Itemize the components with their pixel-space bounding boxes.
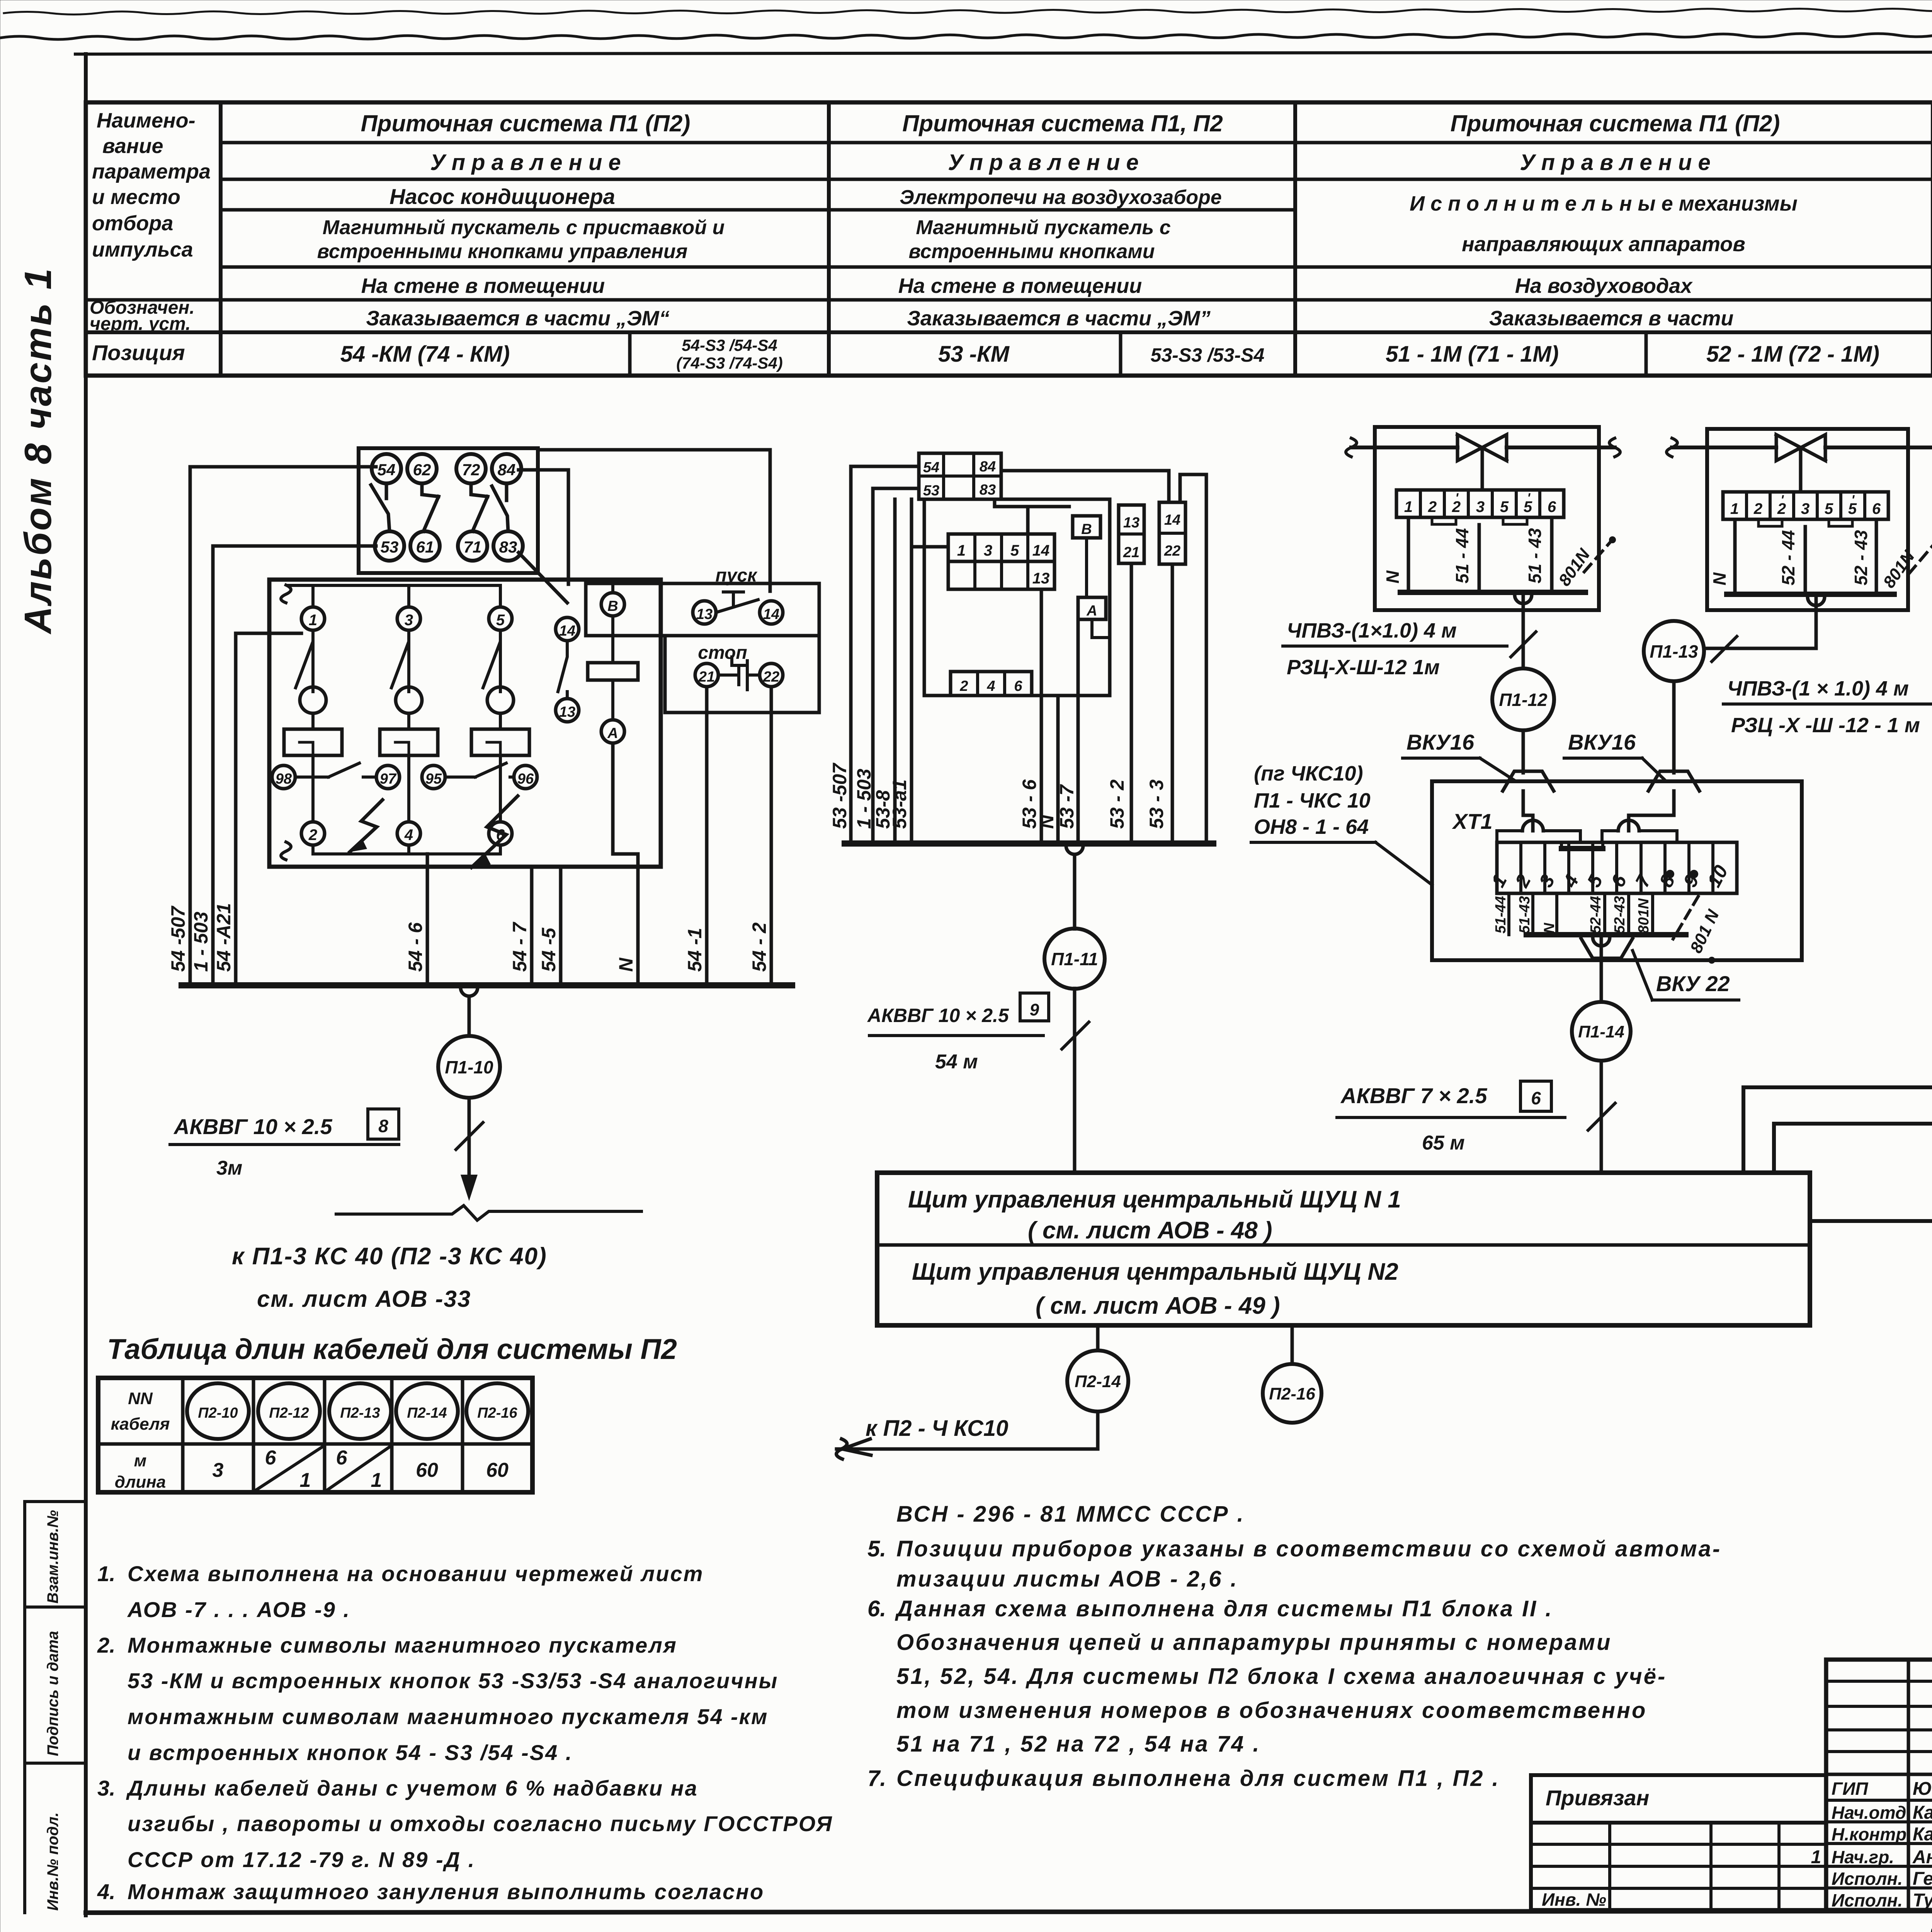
svg-text:13: 13 <box>1032 570 1050 587</box>
svg-text:П2-14: П2-14 <box>407 1405 447 1421</box>
privjazan grid <box>1531 1823 1826 1910</box>
svg-text:Заказывается в части „ЭМ”: Заказывается в части „ЭМ” <box>907 307 1211 330</box>
svg-text:96: 96 <box>517 771 534 787</box>
position row split x2900 <box>1119 332 1122 376</box>
svg-text:к П2 - Ч КС10: к П2 - Ч КС10 <box>866 1416 1009 1441</box>
XT1 wires cells to bus <box>1509 893 1653 935</box>
svg-text:1: 1 <box>1730 500 1739 517</box>
svg-text:направляющих аппаратов: направляющих аппаратов <box>1462 233 1745 256</box>
XT1 outer box <box>1432 781 1802 960</box>
svg-text:1: 1 <box>371 1469 382 1492</box>
svg-text:черт. уст.: черт. уст. <box>90 314 191 334</box>
svg-text:NN: NN <box>128 1389 153 1408</box>
contactor 54-KM terminal box <box>359 448 538 573</box>
svg-text:2.: 2. <box>97 1633 116 1657</box>
svg-text:ХТ1: ХТ1 <box>1452 809 1493 833</box>
svg-text:72: 72 <box>462 461 480 479</box>
starter pole 1-2 <box>301 607 325 630</box>
svg-text:10: 10 <box>1703 862 1732 891</box>
svg-text:54 -А21: 54 -А21 <box>213 903 235 972</box>
svg-text:3: 3 <box>405 612 413 629</box>
junction bump on mid bus <box>1066 846 1083 854</box>
svg-text:П1-12: П1-12 <box>1499 690 1548 710</box>
wire П1-12 down into XT1 <box>1523 730 1533 831</box>
cable circle П2-10 <box>187 1383 249 1439</box>
starter pole 3-4 <box>397 607 420 630</box>
svg-text:53-S3 /53-S4: 53-S3 /53-S4 <box>1151 344 1265 366</box>
aux contact link 98-97 <box>295 763 376 777</box>
svg-text:Подпись и дата: Подпись и дата <box>44 1631 61 1756</box>
wire АКВВГ 4x2.5 to П1-20 <box>1810 1221 1932 1230</box>
terminal 53 <box>375 531 404 561</box>
svg-text:3: 3 <box>1801 500 1810 517</box>
relay coil B-A <box>601 593 624 616</box>
svg-text:(пг ЧКС10): (пг ЧКС10) <box>1254 762 1363 785</box>
svg-text:Нач.отд.: Нач.отд. <box>1832 1803 1911 1823</box>
svg-text:Таблица длин кабелей для сис: Таблица длин кабелей для системы П2 <box>107 1333 677 1365</box>
svg-text:1: 1 <box>300 1469 311 1492</box>
paper top straight edge line <box>75 51 1932 54</box>
valve2 801N dashed link <box>1909 543 1932 574</box>
svg-text:54 - 6: 54 - 6 <box>405 922 426 972</box>
aux contact 96 <box>514 765 537 789</box>
svg-text:95: 95 <box>425 771 442 787</box>
svg-text:Электропечи на воздухозаборе: Электропечи на воздухозаборе <box>900 186 1222 209</box>
valve1 strip jumper hats <box>1432 517 1527 524</box>
svg-text:53 -507: 53 -507 <box>829 762 850 829</box>
wire 54-A21 <box>236 633 301 985</box>
svg-text:встроенными кнопками: встроенными кнопками <box>908 240 1155 263</box>
wire 54-1 <box>705 687 709 985</box>
title block upper revision rows <box>1826 1680 1932 1683</box>
svg-text:На стене в помещении: На стене в помещении <box>898 274 1142 298</box>
svg-text:14: 14 <box>559 623 575 639</box>
mid block bottom bus <box>845 840 1213 847</box>
svg-text:см. лист АОВ -33: см. лист АОВ -33 <box>257 1286 471 1312</box>
svg-text:52-43: 52-43 <box>1612 896 1628 934</box>
svg-text:Магнитный пускатель с прист: Магнитный пускатель с приставкой и <box>323 216 725 239</box>
wire 1-503 <box>213 546 376 985</box>
header table row line y776 <box>86 298 1932 302</box>
svg-text:1: 1 <box>957 542 966 559</box>
instrument П1-13 <box>1644 621 1704 681</box>
wire 53-a1 <box>912 499 948 844</box>
mid terminal strip 1 3 5 14 <box>948 534 1054 561</box>
box A mid <box>1078 597 1106 619</box>
svg-text:У п р а в л е н и е: У п р а в л е н и е <box>948 150 1139 175</box>
cable circle П2-14 <box>396 1383 458 1439</box>
slash on П1-14 cable <box>1588 1103 1615 1130</box>
mid block enclosing box <box>919 499 1110 696</box>
svg-text:Н.контр.: Н.контр. <box>1832 1824 1912 1844</box>
paper top torn edge wavy line 1 <box>4 7 1932 15</box>
wire 54-5 <box>559 867 563 985</box>
header table column line x3352 <box>1293 102 1297 376</box>
svg-text:Щит управления центральный: Щит управления центральный ЩУЦ N2 <box>912 1259 1398 1285</box>
svg-text:ВКУ 22: ВКУ 22 <box>1656 971 1730 996</box>
svg-text:П2-16: П2-16 <box>1269 1384 1315 1403</box>
svg-text:1: 1 <box>1811 1847 1821 1867</box>
svg-text:84: 84 <box>980 459 996 475</box>
svg-text:83: 83 <box>499 538 517 556</box>
XT1 dashed 801N link <box>1673 896 1698 939</box>
instrument П2-16 <box>1291 1325 1294 1364</box>
aux arrow under 95-96 <box>471 796 518 867</box>
wire top box bottom to 14 cell <box>995 499 1069 534</box>
valve1 801N dashed link <box>1584 541 1611 572</box>
left stamp column boxes <box>25 1502 86 1913</box>
svg-text:1 - 503: 1 - 503 <box>190 912 212 972</box>
svg-text:Тужилкина: Тужилкина <box>1913 1890 1932 1911</box>
svg-text:пуск: пуск <box>715 565 758 586</box>
wire к П2-4КС10 <box>837 1412 1098 1449</box>
svg-text:ОН8 - 1 - 64: ОН8 - 1 - 64 <box>1254 815 1369 838</box>
svg-text:длина: длина <box>115 1473 166 1492</box>
svg-text:N: N <box>1709 572 1730 585</box>
valve 1 terminal strip <box>1396 490 1564 517</box>
svg-text:54: 54 <box>923 459 939 476</box>
svg-text:801 N: 801 N <box>1687 906 1723 956</box>
svg-text:54 -1: 54 -1 <box>684 928 706 972</box>
svg-text:РЗЦ-Х-Ш-12 1м: РЗЦ-Х-Ш-12 1м <box>1287 656 1440 679</box>
svg-text:6: 6 <box>1014 678 1022 694</box>
svg-text:53: 53 <box>381 538 399 556</box>
svg-text:( см. лист АОВ - 49 ): ( см. лист АОВ - 49 ) <box>1036 1293 1280 1319</box>
cable hook bottom left <box>281 842 291 860</box>
svg-text:51 - 44: 51 - 44 <box>1452 528 1472 583</box>
svg-text:Данная схема выполнена: Данная схема выполнена для системы П1 бл… <box>895 1596 1553 1621</box>
svg-text:N: N <box>1036 815 1058 829</box>
wire П1-16 to ЩУЦ N1 <box>1774 869 1932 1173</box>
svg-text:Заказывается в части „ЭМ“: Заказывается в части „ЭМ“ <box>366 307 670 330</box>
wire 54-6 <box>426 854 429 985</box>
trapezoid ВКУ16-1 <box>1503 771 1554 791</box>
svg-text:53 - 2: 53 - 2 <box>1106 779 1128 829</box>
svg-text:97: 97 <box>380 771 397 787</box>
svg-text:Монтаж защитного зануления: Монтаж защитного зануления выполнить сог… <box>128 1879 764 1904</box>
svg-text:54 - 2: 54 - 2 <box>748 922 770 972</box>
valve 1 enclosure <box>1375 427 1599 610</box>
svg-text:У п р а в л е н и е: У п р а в л е н и е <box>1520 150 1711 175</box>
svg-text:2: 2 <box>1753 500 1762 517</box>
svg-text:И с п о л н и т е л ь н ы е: И с п о л н и т е л ь н ы е механизмы <box>1410 192 1798 215</box>
svg-text:изгибы , павороты и отходы: изгибы , павороты и отходы согласно пись… <box>128 1811 833 1836</box>
svg-text:52-44: 52-44 <box>1588 896 1604 934</box>
svg-text:Привязан: Привязан <box>1546 1786 1649 1810</box>
svg-text:П1-11: П1-11 <box>1051 949 1098 969</box>
svg-text:П2-14: П2-14 <box>1075 1372 1121 1391</box>
junction bump on bus <box>461 988 478 996</box>
wire top right to 14/22 <box>1001 471 1206 844</box>
svg-text:60: 60 <box>486 1459 509 1481</box>
header table outer border <box>86 102 1932 376</box>
starter pole 5-6 <box>489 607 512 630</box>
svg-text:14: 14 <box>1032 542 1050 559</box>
XT1 terminal strip <box>1497 842 1737 893</box>
wire N mid <box>1056 696 1060 844</box>
instrument П1-12 <box>1492 668 1554 730</box>
junction bump valve2 bus <box>1808 597 1825 605</box>
svg-text:54 -507: 54 -507 <box>167 905 189 972</box>
svg-text:22: 22 <box>1164 543 1180 559</box>
svg-text:Наимено-: Наимено- <box>97 109 196 132</box>
svg-text:4: 4 <box>404 827 413 844</box>
svg-text:П2-16: П2-16 <box>477 1405 517 1421</box>
svg-text:отбора: отбора <box>92 212 173 235</box>
svg-text:4: 4 <box>1559 871 1583 891</box>
wire valve1 bus to П1-12 <box>1522 592 1525 668</box>
cable table grid <box>98 1378 532 1492</box>
thermal hooks inside pole rectangles <box>299 742 500 753</box>
svg-text:9: 9 <box>1030 1000 1039 1019</box>
instrument П1-10 <box>468 996 471 1036</box>
svg-text:1.: 1. <box>97 1561 116 1586</box>
svg-text:7.: 7. <box>867 1766 886 1791</box>
svg-text:На воздуховодах: На воздуховодах <box>1515 274 1693 298</box>
svg-text:Копировал :: Копировал : <box>1928 1924 1932 1932</box>
svg-text:6.: 6. <box>867 1596 886 1621</box>
svg-text:Позиция: Позиция <box>92 340 185 365</box>
wire 54-2 <box>770 687 773 985</box>
svg-text:60: 60 <box>416 1459 438 1481</box>
wire 53-2 <box>1130 563 1133 844</box>
svg-text:2: 2 <box>308 827 317 844</box>
start button contact 14 <box>760 601 783 624</box>
svg-text:Альбом 8 часть 1: Альбом 8 часть 1 <box>17 267 59 635</box>
svg-text:ВСН - 296 - 81 ММСС СССР .: ВСН - 296 - 81 ММСС СССР . <box>896 1502 1245 1527</box>
svg-text:13: 13 <box>1123 515 1139 531</box>
terminal 54 <box>372 454 401 483</box>
svg-text:1 - 503: 1 - 503 <box>853 769 875 829</box>
XT1 jumper bar 4-5 <box>1561 846 1603 851</box>
contact 62-61 <box>422 483 439 531</box>
privjazan box <box>1531 1775 1826 1823</box>
svg-text:В: В <box>607 598 618 614</box>
wire 1-503 mid <box>873 488 919 844</box>
cable hook top left <box>281 585 291 603</box>
svg-text:Приточная система П1 (П2): Приточная система П1 (П2) <box>1451 111 1780 136</box>
svg-text:Заказывается в части: Заказывается в части <box>1489 307 1734 330</box>
svg-text:53 -7: 53 -7 <box>1056 784 1078 829</box>
svg-text:51-43: 51-43 <box>1517 896 1533 934</box>
wire 53-7 mid <box>1077 619 1080 844</box>
header table row line y464 groups1-3 <box>221 178 1932 181</box>
pipe line valve 1 <box>1351 446 1615 449</box>
svg-text:54: 54 <box>378 461 396 479</box>
valve 2 enclosure <box>1707 429 1908 610</box>
svg-text:83: 83 <box>980 482 996 498</box>
wire XT1 to П1-14 <box>1600 935 1603 1002</box>
svg-text:Исполн.: Исполн. <box>1832 1890 1903 1910</box>
svg-text:1: 1 <box>1487 871 1511 891</box>
svg-text:13: 13 <box>559 704 575 720</box>
svg-text:51 на 71 , 52 на 72 ,: 51 на 71 , 52 на 72 , 54 на 74 . <box>896 1731 1261 1757</box>
svg-text:6: 6 <box>265 1447 277 1469</box>
valve2 wires to bus <box>1735 519 1876 594</box>
svg-text:62: 62 <box>413 461 431 479</box>
wire 54-507 <box>190 467 376 985</box>
svg-text:53 -КМ и встроенных кнопок: 53 -КМ и встроенных кнопок 53 -S3/53 -S4… <box>128 1668 778 1693</box>
svg-text:5: 5 <box>496 612 505 629</box>
svg-text:м: м <box>134 1451 147 1470</box>
svg-text:Исполн.: Исполн. <box>1832 1869 1903 1889</box>
pipe hook left v1 <box>1346 438 1357 457</box>
aux contact 97 <box>376 765 400 789</box>
svg-text:8: 8 <box>378 1116 388 1136</box>
svg-text:22: 22 <box>763 669 779 685</box>
pole feed rail <box>288 585 500 607</box>
svg-text:53: 53 <box>923 483 939 499</box>
svg-text:52 - 44: 52 - 44 <box>1778 530 1798 585</box>
instrument П1-11 <box>1073 855 1077 929</box>
svg-text:П1-14: П1-14 <box>1578 1022 1624 1041</box>
svg-text:Казлов: Казлов <box>1913 1824 1932 1845</box>
mid terminal strip row2 with 13 <box>948 561 1054 589</box>
svg-text:N: N <box>1383 570 1403 583</box>
valve1 bus <box>1400 590 1585 595</box>
svg-text:4.: 4. <box>97 1879 116 1904</box>
relay aux column 14-13 <box>556 617 579 641</box>
header table row line y369 groups1-3 <box>221 141 1932 145</box>
svg-text:Юдин: Юдин <box>1913 1779 1932 1799</box>
start button box <box>586 583 819 636</box>
svg-text:51-44: 51-44 <box>1493 896 1509 934</box>
wire 53-3 <box>1171 564 1174 844</box>
valve1 wires to bus <box>1408 517 1552 592</box>
contact 84-83 <box>492 483 508 531</box>
svg-text:1: 1 <box>309 612 317 629</box>
terminal 84 <box>492 454 521 483</box>
cable circle П2-16 <box>466 1383 528 1439</box>
drawing frame bottom edge <box>86 1910 1932 1913</box>
svg-text:и место: и место <box>92 185 180 209</box>
svg-text:3: 3 <box>1535 871 1559 891</box>
aux contact 95 <box>422 765 445 789</box>
svg-text:СССР от 17.12 -79 г. N 89 -: СССР от 17.12 -79 г. N 89 -Д . <box>128 1847 475 1872</box>
svg-text:Позиции приборов указаны: Позиции приборов указаны в соответствии … <box>896 1536 1721 1561</box>
slash on П1-10 cable <box>456 1122 483 1150</box>
terminal 83 <box>493 531 523 561</box>
contact 72-71 <box>471 483 488 531</box>
trapezoid ВКУ22 <box>1581 939 1633 958</box>
svg-text:4: 4 <box>986 678 995 694</box>
slash on П1-11 cable <box>1062 1022 1089 1049</box>
svg-text:ЧПВЗ-(1 × 1.0) 4 м: ЧПВЗ-(1 × 1.0) 4 м <box>1727 677 1909 700</box>
terminal 72 <box>456 454 486 483</box>
wire N left <box>613 743 638 985</box>
svg-text:52 - 43: 52 - 43 <box>1851 530 1871 585</box>
svg-text:3: 3 <box>1476 498 1485 515</box>
wire 53-6 <box>1040 589 1043 844</box>
svg-text:1: 1 <box>1404 498 1413 515</box>
svg-text:У п р а в л е н и е: У п р а в л е н и е <box>430 150 621 175</box>
wire 84 to start box <box>519 470 568 584</box>
svg-text:14: 14 <box>1164 512 1180 528</box>
svg-text:6: 6 <box>1531 1088 1541 1108</box>
svg-text:51 - 43: 51 - 43 <box>1525 528 1545 583</box>
XT1 bottom bus <box>1526 932 1686 937</box>
valve 2 body <box>1776 435 1825 492</box>
wire 53-8 <box>893 499 897 844</box>
svg-text:параметра: параметра <box>92 160 211 183</box>
svg-text:2: 2 <box>1511 871 1535 891</box>
wire top box to start button <box>538 450 770 591</box>
svg-text:Нач.гр.: Нач.гр. <box>1832 1847 1894 1867</box>
terminal 62 <box>407 454 437 483</box>
svg-text:65 м: 65 м <box>1422 1132 1465 1154</box>
svg-text:5: 5 <box>1825 500 1833 517</box>
svg-text:5: 5 <box>1500 498 1509 515</box>
svg-text:Насос кондиционера: Насос кондиционера <box>389 184 615 209</box>
wire П1-15 to ЩУЦ N1 <box>1743 869 1932 1173</box>
pole bottom bus inside box <box>313 845 500 854</box>
svg-text:61: 61 <box>416 538 434 556</box>
slash on П1-13 cable <box>1712 636 1737 662</box>
svg-text:В: В <box>1081 521 1092 537</box>
wire B down mid <box>1085 538 1088 597</box>
svg-text:53 -КМ: 53 -КМ <box>938 342 1010 367</box>
svg-text:РЗЦ -Х -Ш -12 - 1 м: РЗЦ -Х -Ш -12 - 1 м <box>1731 714 1920 737</box>
pipe hook left v2 <box>1667 438 1677 457</box>
header table row line y691 <box>221 265 1932 269</box>
svg-text:Схема выполнена на основани: Схема выполнена на основании чертежей ли… <box>128 1561 704 1586</box>
contactor 54-KM main box <box>269 580 661 867</box>
svg-text:Приточная система П1 (П2): Приточная система П1 (П2) <box>361 111 690 136</box>
wire П1-14 to ЩУЦ <box>1600 1061 1603 1173</box>
svg-text:51, 52, 54. Для системы П2: 51, 52, 54. Для системы П2 блока I схема… <box>896 1664 1667 1689</box>
svg-text:Антохина: Антохина <box>1912 1847 1932 1867</box>
drawing frame left edge <box>84 54 88 1915</box>
paper top torn edge wavy line 2 <box>0 32 1932 39</box>
svg-text:Приточная система П1, П2: Приточная система П1, П2 <box>902 111 1223 136</box>
svg-text:АКВВГ 7 × 2.5: АКВВГ 7 × 2.5 <box>1340 1083 1487 1108</box>
header table column line x5002 <box>1931 102 1932 376</box>
aux arrow under 98-97 <box>350 800 383 852</box>
wire 83 to relay contact 14 <box>519 553 567 603</box>
svg-text:А: А <box>607 725 618 742</box>
svg-text:П2-12: П2-12 <box>269 1405 309 1421</box>
svg-text:Спецификация выполнена для: Спецификация выполнена для систем П1 , П… <box>896 1766 1500 1791</box>
svg-text:П2-10: П2-10 <box>198 1405 238 1421</box>
trapezoid ВКУ16-2 <box>1648 771 1699 791</box>
svg-text:вание: вание <box>102 134 163 158</box>
svg-text:Длины кабелей даны с учето: Длины кабелей даны с учетом 6 % надбавки… <box>126 1776 698 1800</box>
svg-text:кабеля: кабеля <box>111 1415 170 1434</box>
svg-text:ЧПВЗ-(1×1.0) 4 м: ЧПВЗ-(1×1.0) 4 м <box>1287 619 1457 642</box>
svg-text:801N: 801N <box>1636 898 1652 934</box>
aux contact 98 <box>272 765 295 789</box>
svg-text:А: А <box>1086 603 1097 619</box>
svg-text:тизации листы АОВ - 2,6 .: тизации листы АОВ - 2,6 . <box>896 1566 1238 1592</box>
instrument П1-14 <box>1572 1002 1631 1061</box>
svg-text:53-а1: 53-а1 <box>889 779 910 829</box>
svg-text:5: 5 <box>1583 871 1607 891</box>
starter 53-KM terminal box <box>919 453 1001 499</box>
terminal 61 <box>410 531 440 561</box>
svg-text:встроенными кнопками управле: встроенными кнопками управления <box>317 240 688 263</box>
junction bump XT1 bus <box>1593 937 1610 946</box>
wire A down mid <box>1092 619 1110 638</box>
svg-text:13: 13 <box>696 606 713 622</box>
aux contact link 95-96 <box>445 763 514 777</box>
svg-text:21: 21 <box>698 669 715 685</box>
svg-text:6: 6 <box>1548 498 1556 515</box>
wire valve2 bus to П1-13 <box>1705 594 1816 648</box>
svg-text:к П1-3 КС 40 (П2 -3 КС 40): к П1-3 КС 40 (П2 -3 КС 40) <box>232 1243 547 1270</box>
svg-text:Инв. №: Инв. № <box>1542 1889 1606 1910</box>
title block outer <box>1826 1660 1932 1910</box>
svg-text:Магнитный пускатель с: Магнитный пускатель с <box>916 216 1170 239</box>
